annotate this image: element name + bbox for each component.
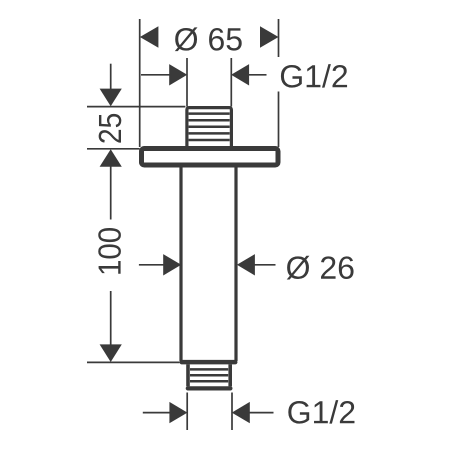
bottom G1/2 right arrow (points left) <box>232 402 250 423</box>
extension line right (diameter 65), gap at G1/2 text <box>278 19 280 57</box>
top G1/2 left arrow (points right) <box>169 64 187 85</box>
label 25 (rotated) <box>99 114 122 143</box>
tail of diameter 26 left arrow <box>139 264 165 266</box>
pipe bottom shoulder <box>182 360 235 365</box>
shaft of 25 upper arrow <box>110 64 112 90</box>
label G1/2 bottom <box>288 400 354 424</box>
pipe right wall <box>234 166 237 362</box>
label G1/2 top <box>281 64 347 88</box>
dim line 25 top extension <box>87 106 185 108</box>
bottom thread body <box>188 364 230 386</box>
shaft of 100 lower arrow <box>110 291 112 346</box>
label 100 (rotated) <box>98 228 121 274</box>
dia26 left arrow (points right) <box>163 254 181 275</box>
tail of top G1/2 left arrow <box>141 74 170 76</box>
extension lines of top thread (G1/2) <box>186 58 188 107</box>
25 upper arrow (points down) <box>100 89 122 107</box>
arrowheads <box>100 26 279 423</box>
dia65 right arrow (points right) <box>260 26 279 47</box>
bottom thread lines <box>190 369 228 381</box>
tail of bottom G1/2 right arrow <box>250 412 274 414</box>
extension line left (diameter 65) <box>139 19 141 147</box>
top G1/2 right arrow (points left) <box>231 64 249 85</box>
shaft between 25 and 100 <box>110 166 112 220</box>
dia26 right arrow (points left) <box>237 254 255 275</box>
pipe left wall <box>179 166 182 362</box>
tail of diameter 26 right arrow <box>254 264 276 266</box>
label dia 26 <box>287 256 354 280</box>
label dia 65 <box>175 27 242 51</box>
25 lower / 100 upper arrow (points up) <box>100 149 122 167</box>
flange (ceiling rosette) <box>142 149 279 166</box>
dia65 left arrow (points left) <box>140 26 159 47</box>
tail of bottom G1/2 left arrow <box>143 412 170 414</box>
top thread body <box>187 108 232 149</box>
dim line 100 bottom extension <box>87 361 180 363</box>
bottom thread end cap <box>188 386 231 390</box>
top thread lines <box>189 114 230 140</box>
bottom G1/2 extension lines <box>186 393 188 431</box>
dimension thin lines <box>87 19 279 430</box>
tail of top G1/2 right arrow <box>249 74 267 76</box>
dim line 25 bottom / 100 top extension <box>87 148 140 150</box>
100 lower arrow (points down) <box>100 344 122 362</box>
bottom G1/2 left arrow (points right) <box>169 402 187 423</box>
